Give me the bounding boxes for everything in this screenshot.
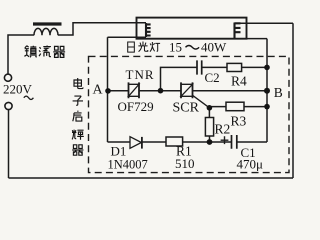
ballast iron core bar xyxy=(33,22,62,25)
svg-text:TNR: TNR xyxy=(126,67,155,82)
junction dot C2 tap xyxy=(158,88,164,94)
svg-text:D1: D1 xyxy=(111,144,127,159)
svg-text:40W: 40W xyxy=(201,40,227,55)
svg-text:OF729: OF729 xyxy=(118,99,154,114)
wire: riser to C2 branch xyxy=(161,67,198,90)
AC tilde by terminals xyxy=(24,96,34,99)
junction dot R4-bus xyxy=(264,65,270,71)
label 电子启辉器 (electronic starter, vertical) xyxy=(72,78,84,155)
junction dot node B xyxy=(264,88,270,94)
wire: lamp right top pin to right side xyxy=(241,22,294,24)
terminal circle lower (220V) xyxy=(5,102,12,109)
fluorescent lamp tube outline xyxy=(137,18,247,39)
wire: R2 to bottom junction xyxy=(209,136,211,142)
capacitor C1 plates xyxy=(232,135,237,149)
label tilde of 15~40W xyxy=(186,46,200,50)
junction dot R3-bus xyxy=(264,104,270,110)
wire: gate node down to R2 xyxy=(208,108,210,118)
wire: ballast to lamp (step up) xyxy=(58,23,146,35)
wire: lamp left bottom pin to node A vertical xyxy=(108,36,147,38)
resistor R1 xyxy=(166,137,183,146)
svg-text:R3: R3 xyxy=(231,113,247,128)
SCR symbol xyxy=(181,82,193,98)
wire: TNR to SCR xyxy=(139,90,181,92)
wire: SCR cathode to node B xyxy=(193,90,268,92)
wire: gate node to R3 xyxy=(209,106,226,108)
wire: C1 to bus corner xyxy=(237,141,267,143)
svg-text:1N4007: 1N4007 xyxy=(108,158,148,172)
resistor R3 xyxy=(226,102,244,111)
wire: C2 to R4 xyxy=(202,66,227,68)
wire: bottom branch A-vertical to D1 xyxy=(108,141,131,143)
wire: D1 to R1 xyxy=(142,141,166,143)
TNR varistor symbol xyxy=(129,82,140,98)
lamp right filament xyxy=(235,23,241,39)
label 镇流器 (ballast) xyxy=(24,46,65,58)
wire: mains neutral down left side xyxy=(8,110,10,178)
junction dot R2/R1/C1 xyxy=(207,139,213,145)
junction dot gate node xyxy=(207,105,213,111)
svg-text:R4: R4 xyxy=(231,73,247,88)
wire: bottom return xyxy=(9,177,294,179)
svg-text:R2: R2 xyxy=(215,121,231,136)
wire: right side vertical xyxy=(292,23,294,178)
svg-text:B: B xyxy=(274,85,283,100)
dashed enclosure: electronic starter box xyxy=(89,56,290,172)
lamp left filament xyxy=(146,23,151,37)
wire: R4 to bus xyxy=(242,66,267,68)
resistor R4 xyxy=(227,63,242,71)
wire: A to TNR xyxy=(108,90,129,92)
capacitor C2 plates xyxy=(197,60,202,74)
svg-text:510: 510 xyxy=(175,156,195,171)
wire: R3 to bus xyxy=(244,106,267,108)
junction dot node A xyxy=(105,88,111,94)
svg-text:470μ: 470μ xyxy=(237,156,264,171)
wire: R1 to junction xyxy=(183,141,210,143)
resistor R2 xyxy=(205,118,213,137)
diode D1 xyxy=(130,137,141,149)
svg-text:C2: C2 xyxy=(205,70,220,85)
label 日光灯 (fluorescent lamp) xyxy=(128,42,160,53)
svg-text:220V: 220V xyxy=(3,82,33,97)
SCR gate lead xyxy=(193,95,210,108)
wire: mains live from terminal up to ballast xyxy=(8,35,34,74)
svg-text:SCR: SCR xyxy=(173,100,200,115)
wire: right bus vertical xyxy=(266,39,268,142)
svg-text:A: A xyxy=(93,83,104,98)
wire: junction to C1 xyxy=(210,141,232,143)
C1 polarity plus sign xyxy=(221,136,229,144)
wire: node A vertical xyxy=(107,37,109,142)
terminal circle upper (220V) xyxy=(4,74,11,81)
wire: lamp right bottom pin over to bus xyxy=(247,38,268,40)
inductor coil (ballast) xyxy=(34,28,58,35)
svg-text:15: 15 xyxy=(169,40,182,55)
